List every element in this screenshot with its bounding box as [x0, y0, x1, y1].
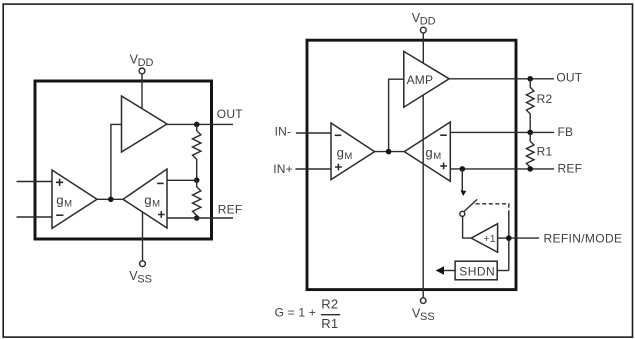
REF label (right) [558, 161, 583, 175]
node REF junction (right) [527, 166, 533, 172]
REF label (left) [218, 202, 243, 216]
svg-text:G = 1 +: G = 1 + [275, 306, 316, 320]
REFIN/MODE label [544, 231, 623, 245]
VDD pin terminal circle (left) [139, 68, 145, 74]
gain formula G = 1 + R2/R1 [275, 297, 341, 331]
op-amp AMP U2 [404, 51, 449, 107]
OUT label (right) [556, 71, 582, 85]
switch blade S1 [464, 199, 477, 211]
svg-text:DD: DD [138, 57, 154, 69]
wire IN- to gm3 [296, 132, 331, 134]
wire gm outputs to node A [97, 198, 123, 200]
wire SHDN output [444, 270, 455, 272]
wire input + (left, from box edge) [17, 181, 53, 183]
wire gm2 + input / REF line [167, 217, 233, 219]
svg-text:g: g [144, 193, 151, 208]
op-amp A1 (left top amplifier) [122, 96, 168, 152]
node A dot (left) [108, 197, 114, 203]
svg-text:IN-: IN- [275, 125, 292, 139]
wire VDD to AMP [422, 33, 424, 63]
svg-text:SS: SS [420, 311, 435, 323]
svg-text:REFIN/MODE: REFIN/MODE [544, 231, 623, 245]
transconductance amp gm3 (right diagram input stage) [331, 123, 375, 180]
svg-text:AMP: AMP [407, 73, 434, 87]
wire AMP input from node B [389, 79, 404, 151]
wire +1 output to switch throw [463, 216, 472, 238]
svg-text:g: g [337, 145, 344, 160]
IN- label [275, 125, 292, 139]
OUT label (left) [217, 107, 243, 121]
svg-text:M: M [344, 151, 352, 162]
gm4 - input mark [440, 134, 447, 136]
wire input - (left, from box edge) [17, 216, 53, 218]
node OUT junction (right) [527, 76, 533, 82]
svg-text:R1: R1 [321, 316, 338, 331]
wire switch pole from REF [461, 169, 463, 191]
switch throw contact circle [460, 211, 465, 216]
svg-text:REF: REF [558, 161, 583, 175]
wire REFIN/MODE line [498, 237, 539, 239]
node FB junction (right) [527, 130, 533, 136]
node B dot (right) [386, 149, 392, 155]
IN+ label [273, 162, 293, 176]
VDD pin terminal circle (right) [420, 27, 426, 33]
gm1 gM label [56, 193, 72, 210]
gm1 - input mark [56, 214, 63, 216]
svg-text:M: M [433, 151, 441, 162]
IC boundary box U1 (left diagram) [35, 81, 212, 239]
gm2 + input mark [158, 211, 165, 218]
svg-text:FB: FB [558, 125, 574, 139]
VSS label (left) [129, 269, 152, 286]
wire IN+ to gm3 [296, 168, 332, 170]
svg-text:M: M [152, 199, 160, 210]
gm3 + input mark [335, 164, 342, 171]
wire REF line (right) [450, 168, 554, 170]
svg-text:SHDN: SHDN [459, 265, 495, 279]
wire A1 output to OUT [167, 123, 233, 125]
wire VDD to op-amp A1 [141, 74, 143, 109]
transconductance amp gm1 (left) [52, 170, 97, 228]
svg-text:R1: R1 [537, 145, 553, 159]
switch pole arrowhead [461, 190, 467, 196]
VSS pin terminal circle (left) [140, 261, 146, 267]
transconductance amp gm2 (left, mirrored) [123, 169, 167, 228]
SHDN block [455, 261, 497, 280]
svg-text:g: g [425, 145, 432, 160]
VDD label (left) [130, 53, 154, 70]
wire FB line [450, 131, 554, 133]
wire REFIN/MODE to switch control [508, 214, 510, 271]
svg-text:+1: +1 [484, 233, 496, 245]
wire gm2 inverting input to divider [167, 179, 197, 181]
svg-text:OUT: OUT [556, 71, 582, 85]
transconductance amp gm4 (right diagram feedback stage, mirrored) [404, 122, 450, 181]
resistor Rbot (left feedback divider lower) [193, 180, 201, 218]
gm4 gM label [425, 145, 441, 162]
svg-text:SS: SS [137, 274, 152, 286]
svg-text:OUT: OUT [217, 107, 243, 121]
wire VSS (right, passes through gm4) [422, 95, 424, 298]
node REFIN junction [506, 235, 512, 241]
node OUT junction (left) [194, 122, 200, 128]
node FB junction (left) [194, 177, 200, 183]
VSS label (right) [412, 306, 435, 323]
svg-text:DD: DD [420, 15, 436, 27]
SHDN output arrowhead [436, 266, 444, 274]
wire AMP output to OUT (right) [449, 78, 554, 80]
svg-text:REF: REF [218, 202, 243, 216]
svg-text:R2: R2 [537, 92, 553, 106]
svg-text:IN+: IN+ [273, 162, 293, 176]
resistor Rtop (left feedback divider upper) [193, 125, 201, 181]
wire VSS (left) [142, 212, 144, 261]
gm1 + input mark [56, 179, 63, 186]
node REF junction (left) [194, 215, 200, 221]
wire A1 input from node A [111, 124, 122, 199]
switch control dashed link [476, 204, 509, 214]
gm4 + input mark [440, 163, 447, 170]
FB label [558, 125, 574, 139]
gm3 - input mark [335, 134, 342, 136]
node switch junction on REF line [460, 166, 466, 172]
svg-text:R2: R2 [321, 297, 338, 312]
resistor R2 [526, 79, 552, 133]
resistor R1 [526, 132, 552, 169]
VDD label (right) [412, 11, 436, 28]
wire SHDN input from REFIN node [497, 270, 509, 272]
IC boundary box U2 (right diagram) [307, 40, 516, 289]
buffer amp +1 [471, 224, 497, 253]
VSS pin terminal circle (right) [420, 298, 426, 304]
gm2 gM label [144, 193, 160, 210]
svg-text:M: M [64, 199, 72, 210]
svg-text:g: g [56, 193, 63, 208]
gm2 - input mark [157, 182, 164, 184]
wire gm outputs to node B [375, 151, 405, 153]
gm3 gM label [337, 145, 353, 162]
